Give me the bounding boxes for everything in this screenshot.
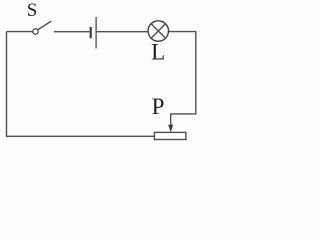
svg-text:P: P	[152, 94, 165, 119]
svg-text:S: S	[27, 0, 38, 21]
svg-text:L: L	[151, 39, 165, 64]
